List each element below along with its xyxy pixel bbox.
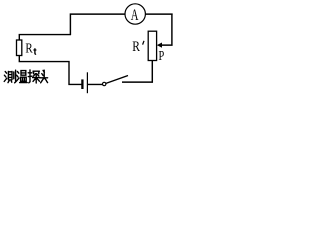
wire battery left, up, and along bottom-left to Rt: [19, 56, 82, 85]
char 温: [16, 72, 19, 82]
wire battery to switch hinge: [87, 83, 102, 85]
wire right vertical down to wiper: [161, 14, 172, 46]
wire pot bottom lead down and left to switch: [122, 61, 152, 83]
ammeter U1: [125, 4, 145, 24]
svg-text:R: R: [25, 40, 33, 56]
potentiometer R' body: [148, 31, 156, 60]
battery negative short thick plate: [81, 79, 83, 89]
label 测温探头 (drawn glyphs): [4, 70, 47, 83]
resistor Rt: [17, 40, 22, 56]
switch hinge: [103, 82, 106, 85]
char 头: [40, 70, 48, 83]
svg-text:P: P: [159, 47, 165, 63]
wiper arrowhead into potentiometer: [157, 43, 162, 48]
wire step up to top rail: [70, 14, 125, 35]
char 探: [28, 70, 32, 83]
wire top lead of Rt up and right to step: [19, 35, 71, 40]
svg-text:A: A: [131, 6, 139, 24]
char 测: [4, 72, 7, 82]
switch S lever: [106, 76, 128, 84]
wire ammeter right to top-right corner: [145, 13, 172, 15]
svg-text:R: R: [132, 38, 140, 55]
battery positive long plate: [86, 72, 88, 93]
